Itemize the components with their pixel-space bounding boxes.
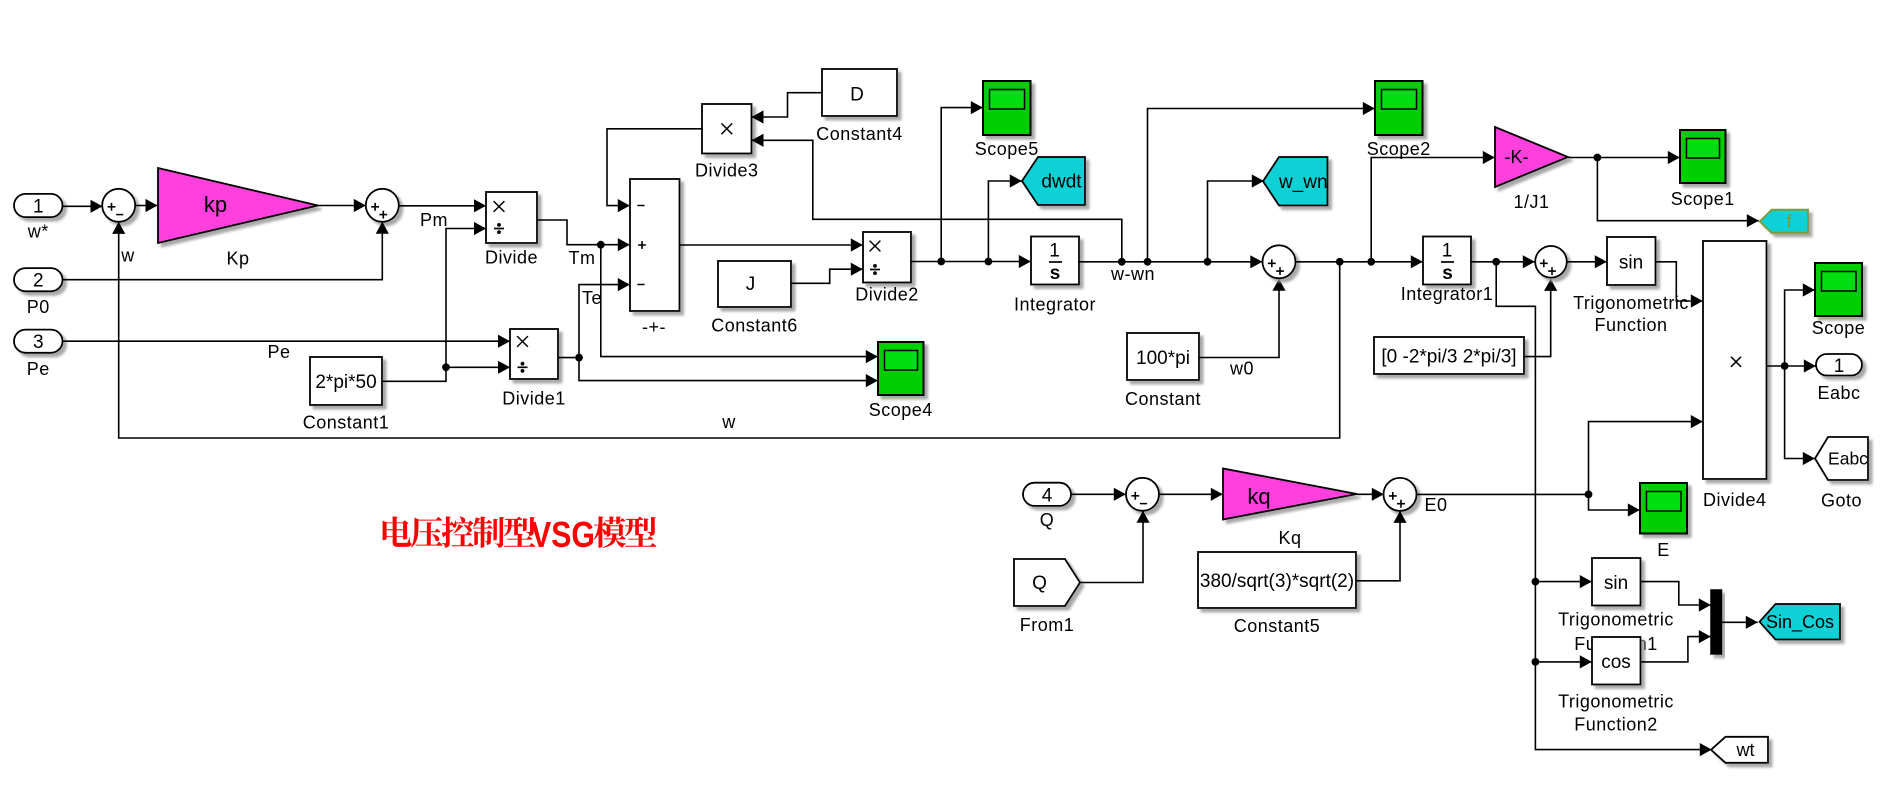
- wire Q to Sum5: [1071, 488, 1126, 501]
- wire Constant6 to Divide2 in2: [791, 263, 863, 284]
- scope E: [1640, 483, 1687, 560]
- svg-text:E0: E0: [1424, 495, 1447, 515]
- mux block: [1711, 590, 1722, 654]
- svg-text:-+-: -+-: [642, 317, 666, 337]
- sum Sum1: [102, 189, 135, 222]
- from tag Q (From1): [1014, 559, 1080, 635]
- wire From1 to Sum5 bottom: [1080, 511, 1150, 583]
- wire P0 to Sum2 bottom: [63, 222, 389, 280]
- wire Te: Divide1 out: [558, 354, 583, 362]
- svg-text:kp: kp: [204, 192, 227, 217]
- wire w-wn feedback to Divide3 in2: [752, 134, 1122, 262]
- sum Sum6 (E0): [1384, 478, 1417, 511]
- constant Constant (100*pi): [1125, 333, 1201, 409]
- wire sin to Divide4: [1656, 262, 1703, 308]
- integrator block Integrator (1/s): [1014, 237, 1096, 315]
- sum Sum5 (Q compare): [1126, 478, 1159, 511]
- svg-text:VSG: VSG: [531, 514, 595, 555]
- wire Kq to Sum6: [1357, 488, 1384, 501]
- svg-text:Constant4: Constant4: [816, 124, 903, 144]
- svg-text:Integrator: Integrator: [1014, 295, 1096, 315]
- input port 2 P0: [14, 268, 63, 317]
- svg-text:1: 1: [33, 197, 44, 218]
- divide block Divide1: [502, 329, 566, 408]
- svg-text:Eabc: Eabc: [1828, 449, 1868, 469]
- wire to dwdt tag: [988, 174, 1021, 261]
- wire Pm: Sum2 to Divide: [399, 199, 486, 212]
- svg-text:1: 1: [1442, 241, 1453, 262]
- svg-text:Trigonometric: Trigonometric: [1558, 692, 1674, 712]
- svg-text:1: 1: [1049, 241, 1060, 262]
- svg-text:Pe: Pe: [27, 359, 50, 379]
- svg-text:Divide2: Divide2: [855, 285, 919, 305]
- wire Divide4 out: [1767, 359, 1816, 372]
- svg-text:Pe: Pe: [267, 342, 290, 362]
- divide block Divide2: [855, 232, 919, 305]
- svg-text:wt: wt: [1736, 740, 1755, 760]
- wire E0 to scope E: [1589, 494, 1640, 516]
- wire Integrator1 to Sum4: [1471, 255, 1535, 268]
- constant Constant4 (D): [816, 69, 903, 144]
- divide block Divide4: [1703, 241, 1767, 510]
- wire Tm: Divide to Sum -+-: [537, 220, 630, 251]
- wire Tm branch to Scope4 in1: [601, 245, 878, 364]
- svg-text:E: E: [1657, 540, 1670, 560]
- svg-text:-K-: -K-: [1505, 147, 1529, 167]
- input port 3 Pe: [14, 330, 63, 379]
- wire Sum4 to sin: [1567, 255, 1607, 268]
- svg-text:sin: sin: [1604, 573, 1628, 594]
- svg-text:Function: Function: [1594, 315, 1667, 335]
- input port 4 Q: [1023, 483, 1071, 530]
- wire Constant4 to Divide3 in1: [752, 93, 823, 124]
- output port Eabc: [1816, 354, 1862, 403]
- svg-text:w0: w0: [1229, 359, 1254, 379]
- svg-text:Kq: Kq: [1278, 528, 1301, 548]
- svg-text:Q: Q: [1040, 510, 1055, 530]
- wire to 1/J1 gain: [1371, 151, 1495, 262]
- svg-text:Constant1: Constant1: [303, 413, 390, 433]
- wire w* to Sum1: [63, 200, 103, 213]
- goto tag Eabc: [1815, 437, 1868, 511]
- scope Scope5: [975, 81, 1039, 159]
- wire theta down: [1496, 262, 1701, 750]
- wire sin1 to Mux: [1641, 582, 1711, 612]
- svg-text:3: 3: [33, 332, 44, 353]
- svg-text:w_wn: w_wn: [1278, 172, 1328, 193]
- svg-text:Kp: Kp: [226, 249, 249, 269]
- svg-text:Pm: Pm: [420, 210, 448, 230]
- goto tag wt: [1711, 737, 1768, 763]
- sum block -+-: [630, 179, 680, 337]
- trig block sin1 (Trigonometric Function1): [1592, 558, 1641, 606]
- wire Sum5 to Kq: [1159, 488, 1223, 501]
- wire E0 to Divide4 in2: [1589, 415, 1703, 494]
- svg-text:Divide4: Divide4: [1703, 490, 1767, 510]
- svg-text:w: w: [721, 412, 736, 432]
- svg-text:4: 4: [1042, 485, 1053, 506]
- wire to Scope (Eabc): [1785, 283, 1815, 366]
- sum Sum2: [366, 189, 399, 222]
- divide block Divide: [485, 192, 538, 268]
- svg-text:From1: From1: [1020, 615, 1075, 635]
- goto tag w_wn: [1263, 157, 1328, 206]
- svg-text:Function2: Function2: [1574, 715, 1658, 735]
- svg-text:380/sqrt(3)*sqrt(2): 380/sqrt(3)*sqrt(2): [1200, 571, 1354, 592]
- trig block cos (Trigonometric Function2): [1592, 637, 1641, 685]
- svg-text:J: J: [746, 274, 756, 295]
- svg-text:w-wn: w-wn: [1110, 264, 1155, 284]
- svg-text:1: 1: [1834, 356, 1845, 377]
- wire Divide2 out to Integrator: [911, 255, 1031, 268]
- gain Kp (kp): [158, 168, 318, 269]
- wire Sum3 out to Integrator1: [1296, 255, 1423, 268]
- goto tag Sin_Cos: [1760, 604, 1841, 640]
- svg-text:Trigonometric: Trigonometric: [1573, 293, 1689, 313]
- svg-text:2*pi*50: 2*pi*50: [315, 372, 376, 393]
- wire 1/J1 to Scope1: [1568, 151, 1680, 164]
- wire Mux to Sin_Cos tag: [1722, 616, 1758, 629]
- goto tag f: [1760, 210, 1808, 233]
- wire Sum1 to Kp: [135, 199, 158, 212]
- constant Constant1 (2*pi*50): [303, 357, 390, 433]
- wire phase const to Sum4 bottom: [1524, 279, 1557, 357]
- scope Scope4: [869, 342, 933, 420]
- svg-text:100*pi: 100*pi: [1136, 348, 1190, 369]
- divide block Divide3 (reversed): [695, 104, 759, 181]
- svg-text:Constant6: Constant6: [711, 316, 798, 336]
- svg-text:Constant5: Constant5: [1234, 616, 1321, 636]
- wire cos to Mux: [1641, 630, 1711, 662]
- wire to w_wn tag: [1208, 174, 1264, 261]
- wire E0 line: [1416, 491, 1592, 499]
- svg-text:D: D: [850, 85, 864, 106]
- wire Sum-+- out to Divide2: [680, 238, 863, 251]
- wire to f tag: [1597, 158, 1758, 228]
- svg-text:1/J1: 1/J1: [1513, 192, 1549, 212]
- svg-text:2: 2: [33, 271, 44, 292]
- scope Scope2: [1367, 81, 1431, 159]
- wire to Scope2: [1148, 102, 1375, 262]
- wire Divide3 out to Sum -+-: [607, 129, 702, 212]
- gain 1/J1 (-K-): [1495, 127, 1568, 212]
- scope Scope (right): [1812, 263, 1866, 338]
- sum Sum4: [1535, 246, 1567, 278]
- goto tag dwdt: [1022, 157, 1085, 205]
- svg-text:Scope5: Scope5: [975, 139, 1039, 159]
- svg-text:Integrator1: Integrator1: [1401, 284, 1494, 304]
- wire Pe to Divide1: [63, 335, 510, 348]
- scope Scope1: [1671, 130, 1735, 209]
- integrator block Integrator1 (1/s): [1401, 237, 1494, 305]
- svg-text:Divide: Divide: [485, 248, 538, 268]
- svg-text:Scope1: Scope1: [1671, 189, 1735, 209]
- svg-text:s: s: [1050, 263, 1061, 284]
- svg-text:w: w: [120, 246, 135, 266]
- svg-text:Scope: Scope: [1812, 318, 1866, 338]
- svg-text:P0: P0: [27, 297, 50, 317]
- svg-text:sin: sin: [1619, 253, 1643, 274]
- wire Te to Sum -+- minus: [579, 278, 630, 358]
- svg-text:Scope4: Scope4: [869, 400, 933, 420]
- svg-text:kq: kq: [1247, 484, 1270, 509]
- trig block sin (Trigonometric Function): [1607, 237, 1656, 285]
- svg-text:cos: cos: [1601, 652, 1631, 673]
- wire w feedback long: [112, 222, 1340, 438]
- wire Kp to Sum2: [318, 199, 366, 212]
- svg-text:Divide1: Divide1: [502, 388, 566, 408]
- wire Constant1 branch to Divide1: [446, 361, 510, 374]
- wire Te branch to Scope4 in2: [579, 358, 878, 388]
- svg-text:Sin_Cos: Sin_Cos: [1766, 612, 1834, 633]
- svg-text:Trigonometric: Trigonometric: [1558, 610, 1674, 630]
- svg-text:Goto: Goto: [1821, 491, 1862, 511]
- svg-text:dwdt: dwdt: [1041, 172, 1082, 193]
- svg-text:Divide3: Divide3: [695, 161, 759, 181]
- wire w0 to Sum3 bottom: [1199, 279, 1286, 358]
- svg-text:[0 -2*pi/3 2*pi/3]: [0 -2*pi/3 2*pi/3]: [1381, 347, 1516, 368]
- svg-text:Eabc: Eabc: [1817, 383, 1860, 403]
- svg-text:w*: w*: [27, 222, 49, 242]
- svg-text:Constant: Constant: [1125, 389, 1201, 409]
- wire Constant1 to Divide and Divide1 divisor: [382, 222, 486, 381]
- wire theta to sin1: [1535, 575, 1591, 588]
- wire theta to cos: [1535, 655, 1591, 668]
- wire w-wn line to Sum3: [1078, 255, 1262, 268]
- svg-text:Tm: Tm: [569, 248, 596, 268]
- constant [0 -2*pi/3 2*pi/3]: [1374, 337, 1524, 374]
- svg-text:s: s: [1442, 263, 1453, 284]
- svg-text:Te: Te: [582, 288, 602, 308]
- constant Constant6 (J): [711, 261, 798, 336]
- gain Kq (kq): [1223, 469, 1357, 549]
- sum Sum3: [1263, 245, 1296, 278]
- svg-text:Q: Q: [1032, 573, 1047, 594]
- constant Constant5 (380/sqrt(3)*sqrt(2)): [1198, 552, 1356, 636]
- wire to Scope5: [941, 101, 983, 262]
- input port 1 w*: [14, 194, 63, 242]
- wire to Goto Eabc: [1785, 366, 1815, 465]
- wire Constant5 to Sum6 bottom: [1356, 511, 1407, 581]
- arrow into wt tag: [1700, 743, 1712, 756]
- title text 电压控制型VSG模型: [383, 514, 657, 555]
- svg-text:Scope2: Scope2: [1367, 139, 1431, 159]
